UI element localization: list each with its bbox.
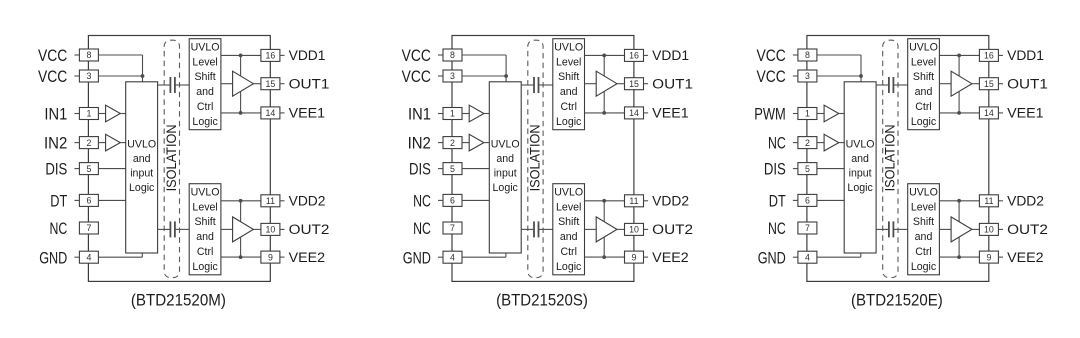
lead tick pin 3	[74, 75, 79, 77]
svg-text:VEE1: VEE1	[289, 106, 326, 121]
svg-text:NC: NC	[768, 219, 786, 238]
wire driver output to pin 15	[253, 83, 261, 85]
svg-text:5: 5	[805, 164, 810, 174]
lead tick pin 3	[793, 75, 798, 77]
pin 11 (VDD2)	[625, 195, 644, 207]
block UVLO Level Shift and Ctrl Logic ch2	[553, 184, 585, 275]
wire VDD tap to driver	[240, 201, 242, 222]
svg-text:Ctrl: Ctrl	[197, 246, 213, 258]
svg-text:Logic: Logic	[129, 182, 155, 194]
lead tick pin 2	[74, 142, 79, 144]
svg-text:1: 1	[805, 109, 810, 119]
pin 14 (VEE1)	[625, 107, 644, 119]
lead tick pin 11	[280, 200, 285, 202]
svg-text:VEE1: VEE1	[652, 106, 689, 121]
junction dot VEE pin 9	[957, 255, 961, 259]
wire driver output to pin 10	[253, 228, 261, 230]
svg-text:Shift: Shift	[194, 71, 215, 83]
svg-text:2: 2	[805, 138, 810, 148]
svg-text:DIS: DIS	[409, 160, 431, 179]
svg-text:VCC: VCC	[402, 67, 431, 86]
svg-text:VEE1: VEE1	[1007, 106, 1044, 121]
svg-text:DT: DT	[769, 192, 786, 211]
wire VEE tap to driver	[240, 91, 242, 113]
wire driver output to pin 10	[617, 228, 625, 230]
svg-text:(BTD21520M): (BTD21520M)	[131, 291, 226, 310]
pin 4 (GND)	[79, 251, 98, 263]
pin 8 (VCC)	[798, 49, 817, 61]
pin 2 (IN2)	[79, 137, 98, 149]
svg-text:VEE2: VEE2	[652, 250, 689, 265]
svg-text:16: 16	[984, 51, 994, 61]
wire GND pin4 to logic block	[98, 256, 142, 258]
svg-text:Level: Level	[911, 56, 936, 68]
pin 10 (OUT2)	[979, 223, 998, 235]
svg-text:5: 5	[86, 164, 91, 174]
wire buffer pin 2 to logic block	[120, 142, 125, 144]
pin 1 (PWM)	[798, 108, 817, 120]
svg-text:16: 16	[629, 51, 639, 61]
svg-text:VDD1: VDD1	[652, 48, 689, 63]
svg-text:Ctrl: Ctrl	[560, 101, 576, 113]
lead tick pin 9	[280, 256, 285, 258]
driver buffer ch pin 15	[951, 71, 972, 96]
svg-text:GND: GND	[758, 248, 786, 267]
lead tick pin 16	[280, 54, 285, 56]
svg-text:8: 8	[805, 50, 810, 60]
svg-text:DIS: DIS	[45, 160, 67, 179]
pin 14 (VEE1)	[979, 107, 998, 119]
wire VEE tap to driver	[603, 91, 605, 113]
pin 3 (VCC)	[798, 70, 817, 82]
wire pin 5 to logic block	[462, 168, 489, 170]
svg-text:ISOLATION: ISOLATION	[164, 124, 179, 191]
svg-text:VEE2: VEE2	[1007, 250, 1044, 265]
svg-text:Logic: Logic	[493, 182, 519, 194]
svg-text:6: 6	[450, 196, 455, 206]
wire VCC pin3 to junction	[817, 75, 861, 77]
pin 16 (VDD1)	[625, 49, 644, 61]
lead tick pin 6	[793, 199, 798, 201]
svg-text:VCC: VCC	[757, 46, 786, 65]
svg-text:and: and	[560, 231, 578, 243]
block UVLO Level Shift and Ctrl Logic ch1	[189, 39, 221, 130]
pin 16 (VDD1)	[261, 49, 280, 61]
lead tick pin 1	[438, 113, 443, 115]
svg-text:Shift: Shift	[913, 216, 934, 228]
capacitor isolation ch1	[876, 84, 889, 86]
lead tick pin 5	[793, 168, 798, 170]
svg-text:and: and	[915, 231, 933, 243]
pin 7 (NC)	[443, 222, 462, 234]
wire VCC junction to logic block	[142, 76, 144, 82]
svg-text:14: 14	[629, 108, 639, 118]
junction dot VDD pin 11	[239, 199, 243, 203]
junction dot VCC net	[141, 74, 145, 78]
svg-text:4: 4	[805, 252, 810, 262]
svg-text:VDD1: VDD1	[289, 48, 326, 63]
pin 6 (DT)	[798, 194, 817, 206]
svg-text:VEE2: VEE2	[289, 250, 326, 265]
svg-text:IN2: IN2	[44, 134, 67, 153]
lead tick pin 14	[998, 112, 1003, 114]
junction dot VDD pin 16	[602, 54, 606, 58]
svg-text:VDD2: VDD2	[652, 194, 689, 209]
svg-text:1: 1	[86, 109, 91, 119]
pin 1 (IN1)	[79, 108, 98, 120]
svg-text:and: and	[196, 86, 214, 98]
wire VCC pin8 to junction	[817, 54, 861, 56]
svg-text:OUT1: OUT1	[289, 77, 330, 92]
wire driver output to pin 15	[617, 83, 625, 85]
block UVLO Level Shift and Ctrl Logic ch2	[189, 184, 221, 275]
svg-text:and: and	[915, 86, 933, 98]
svg-text:Level: Level	[192, 56, 217, 68]
svg-text:GND: GND	[403, 248, 431, 267]
svg-text:UVLO: UVLO	[127, 139, 156, 151]
svg-text:10: 10	[629, 225, 639, 235]
pin 7 (NC)	[798, 222, 817, 234]
lead tick pin 15	[998, 83, 1003, 85]
lead tick pin 15	[280, 83, 285, 85]
wire pin 1 to input buffer	[817, 113, 824, 115]
wire level shift to driver input	[585, 83, 597, 85]
svg-text:IN1: IN1	[44, 105, 67, 124]
svg-text:(BTD21520E): (BTD21520E)	[851, 291, 943, 310]
svg-text:Shift: Shift	[913, 71, 934, 83]
svg-text:Level: Level	[911, 201, 936, 213]
junction dot VCC net	[504, 74, 508, 78]
svg-text:Shift: Shift	[558, 216, 579, 228]
svg-text:2: 2	[86, 138, 91, 148]
wire VDD net ch pin 11	[585, 200, 625, 202]
pin 10 (OUT2)	[261, 223, 280, 235]
svg-text:(BTD21520S): (BTD21520S)	[496, 291, 588, 310]
svg-text:OUT1: OUT1	[652, 77, 693, 92]
isolation barrier (dashed)	[528, 40, 543, 277]
lead tick pin 5	[74, 168, 79, 170]
svg-text:8: 8	[86, 50, 91, 60]
wire buffer pin 2 to logic block	[839, 142, 844, 144]
driver buffer ch pin 10	[233, 217, 254, 242]
wire VEE tap to driver	[240, 237, 242, 257]
pin 2 (IN2)	[443, 137, 462, 149]
svg-text:input: input	[849, 167, 872, 179]
wire VCC pin8 to junction	[98, 54, 142, 56]
svg-text:ISOLATION: ISOLATION	[882, 124, 897, 191]
junction dot VEE pin 14	[957, 111, 961, 115]
wire buffer pin 1 to logic block	[120, 113, 125, 115]
svg-text:Level: Level	[556, 56, 581, 68]
junction dot VEE pin 9	[239, 255, 243, 259]
svg-text:input: input	[494, 167, 517, 179]
lead tick pin 4	[74, 256, 79, 258]
svg-text:and: and	[496, 153, 514, 165]
input buffer pin 2	[469, 134, 484, 151]
svg-text:IN1: IN1	[408, 105, 431, 124]
svg-text:Shift: Shift	[558, 71, 579, 83]
pin 5 (DIS)	[443, 163, 462, 175]
svg-text:14: 14	[266, 108, 276, 118]
wire VEE net ch pin 9	[585, 256, 625, 258]
lead tick pin 11	[998, 200, 1003, 202]
svg-text:11: 11	[984, 196, 993, 206]
lead tick pin 14	[280, 112, 285, 114]
pin 9 (VEE2)	[625, 251, 644, 263]
svg-text:and: and	[560, 86, 578, 98]
wire VDD tap to driver	[958, 201, 960, 222]
svg-text:DT: DT	[50, 192, 67, 211]
svg-text:VDD2: VDD2	[1007, 194, 1044, 209]
svg-text:VCC: VCC	[38, 46, 67, 65]
wire VEE net ch pin 9	[939, 256, 979, 258]
svg-text:and: and	[133, 153, 151, 165]
capacitor isolation ch2	[158, 228, 171, 230]
svg-text:Level: Level	[192, 201, 217, 213]
lead tick pin 16	[644, 54, 649, 56]
svg-text:PWM: PWM	[754, 105, 786, 124]
svg-text:ISOLATION: ISOLATION	[527, 124, 542, 191]
junction dot VEE pin 9	[602, 255, 606, 259]
pin 15 (OUT1)	[979, 78, 998, 90]
lead tick pin 2	[793, 142, 798, 144]
wire pin 2 to input buffer	[462, 142, 469, 144]
svg-text:and: and	[196, 231, 214, 243]
driver buffer ch pin 10	[596, 217, 617, 242]
svg-text:UVLO: UVLO	[191, 186, 220, 198]
svg-text:9: 9	[986, 252, 991, 262]
capacitor isolation ch2	[521, 228, 534, 230]
lead tick pin 11	[644, 200, 649, 202]
wire level shift to driver input	[221, 83, 233, 85]
wire pin 2 to input buffer	[98, 142, 105, 144]
pin 11 (VDD2)	[979, 195, 998, 207]
wire VCC pin3 to junction	[98, 75, 142, 77]
svg-text:10: 10	[984, 225, 994, 235]
wire VDD net ch pin 16	[939, 54, 979, 56]
svg-text:10: 10	[266, 225, 276, 235]
svg-text:8: 8	[450, 50, 455, 60]
pin 14 (VEE1)	[261, 107, 280, 119]
wire VEE tap to driver	[603, 237, 605, 257]
svg-text:Shift: Shift	[194, 216, 215, 228]
lead tick pin 8	[438, 54, 443, 56]
svg-text:OUT1: OUT1	[1007, 77, 1048, 92]
lead tick pin 6	[438, 199, 443, 201]
lead tick pin 8	[74, 54, 79, 56]
wire level shift to driver input	[939, 228, 951, 230]
wire VEE tap to driver	[958, 91, 960, 113]
svg-text:Ctrl: Ctrl	[915, 246, 931, 258]
wire VCC junction to logic block	[505, 76, 507, 82]
svg-text:3: 3	[805, 71, 810, 81]
svg-text:Logic: Logic	[192, 261, 218, 273]
lead tick pin 9	[644, 256, 649, 258]
isolation barrier (dashed)	[164, 40, 179, 277]
svg-text:9: 9	[268, 252, 273, 262]
wire pin 2 to input buffer	[817, 142, 824, 144]
svg-text:6: 6	[805, 196, 810, 206]
svg-text:2: 2	[450, 138, 455, 148]
wire VDD net ch pin 11	[939, 200, 979, 202]
pin 4 (GND)	[798, 251, 817, 263]
wire driver output to pin 10	[972, 228, 980, 230]
svg-text:Logic: Logic	[556, 116, 582, 128]
svg-text:Logic: Logic	[911, 261, 937, 273]
pin 7 (NC)	[79, 222, 98, 234]
wire VEE net ch pin 9	[221, 256, 261, 258]
lead tick pin 10	[998, 228, 1003, 230]
capacitor isolation ch1	[158, 84, 171, 86]
lead tick pin 8	[793, 54, 798, 56]
wire pin 5 to logic block	[98, 168, 125, 170]
wire level shift to driver input	[585, 228, 597, 230]
block UVLO Level Shift and Ctrl Logic ch1	[553, 39, 585, 130]
junction dot VCC net	[859, 74, 863, 78]
svg-text:16: 16	[266, 51, 276, 61]
pin 9 (VEE2)	[261, 251, 280, 263]
svg-text:Logic: Logic	[911, 116, 937, 128]
IC package outline BTD21520S	[452, 36, 634, 282]
driver buffer ch pin 10	[951, 217, 972, 242]
svg-text:NC: NC	[413, 192, 431, 211]
lead tick pin 4	[438, 256, 443, 258]
svg-text:Logic: Logic	[556, 261, 582, 273]
lead tick pin 10	[644, 228, 649, 230]
wire VDD net ch pin 11	[221, 200, 261, 202]
driver buffer ch pin 15	[596, 71, 617, 96]
IC package outline BTD21520M	[88, 36, 270, 282]
pin 16 (VDD1)	[979, 49, 998, 61]
svg-text:OUT2: OUT2	[652, 222, 693, 237]
input buffer pin 1	[824, 105, 839, 122]
input buffer pin 1	[106, 105, 121, 122]
lead tick pin 4	[793, 256, 798, 258]
pin 8 (VCC)	[79, 49, 98, 61]
svg-text:5: 5	[450, 164, 455, 174]
wire GND pin4 to logic block	[462, 256, 506, 258]
wire GND pin4 to logic block	[817, 256, 861, 258]
svg-text:NC: NC	[50, 219, 68, 238]
lead tick pin 16	[998, 54, 1003, 56]
lead tick pin 5	[438, 168, 443, 170]
svg-text:14: 14	[984, 108, 994, 118]
svg-text:VDD1: VDD1	[1007, 48, 1044, 63]
lead tick pin 1	[74, 113, 79, 115]
svg-text:Logic: Logic	[847, 182, 873, 194]
wire pin 5 to logic block	[817, 168, 844, 170]
junction dot VDD pin 16	[239, 54, 243, 58]
pin 2 (NC)	[798, 137, 817, 149]
wire VEE net ch pin 14	[221, 112, 261, 114]
svg-text:and: and	[851, 153, 869, 165]
input buffer pin 2	[824, 134, 839, 151]
junction dot VDD pin 16	[957, 54, 961, 58]
svg-text:4: 4	[86, 252, 91, 262]
svg-text:UVLO: UVLO	[554, 41, 583, 53]
svg-text:UVLO: UVLO	[909, 41, 938, 53]
pin 11 (VDD2)	[261, 195, 280, 207]
wire VCC pin8 to junction	[462, 54, 506, 56]
junction dot VDD pin 11	[957, 199, 961, 203]
wire VDD net ch pin 16	[585, 54, 625, 56]
svg-text:Level: Level	[556, 201, 581, 213]
svg-text:Ctrl: Ctrl	[915, 101, 931, 113]
svg-text:OUT2: OUT2	[289, 222, 330, 237]
block UVLO Level Shift and Ctrl Logic ch2	[908, 184, 940, 275]
svg-text:Ctrl: Ctrl	[560, 246, 576, 258]
wire pin 1 to input buffer	[98, 113, 105, 115]
wire VCC junction to logic block	[860, 76, 862, 82]
svg-text:11: 11	[629, 196, 638, 206]
svg-text:UVLO: UVLO	[191, 41, 220, 53]
junction dot VEE pin 14	[602, 111, 606, 115]
wire buffer pin 1 to logic block	[484, 113, 489, 115]
capacitor isolation ch2	[876, 228, 889, 230]
svg-text:15: 15	[984, 79, 994, 89]
svg-text:4: 4	[450, 252, 455, 262]
capacitor isolation ch1	[521, 84, 534, 86]
svg-text:VDD2: VDD2	[289, 194, 326, 209]
wire driver output to pin 15	[972, 83, 980, 85]
wire VDD tap to driver	[240, 55, 242, 76]
svg-text:GND: GND	[39, 248, 67, 267]
pin 5 (DIS)	[798, 163, 817, 175]
wire VDD tap to driver	[603, 55, 605, 76]
svg-text:VCC: VCC	[757, 67, 786, 86]
svg-text:15: 15	[266, 79, 276, 89]
block UVLO Level Shift and Ctrl Logic ch1	[908, 39, 940, 130]
lead tick pin 3	[438, 75, 443, 77]
lead tick pin 9	[998, 256, 1003, 258]
lead tick pin 6	[74, 199, 79, 201]
svg-text:7: 7	[86, 223, 91, 233]
pin 10 (OUT2)	[625, 223, 644, 235]
svg-text:UVLO: UVLO	[909, 186, 938, 198]
isolation barrier (dashed)	[883, 40, 898, 277]
svg-text:Logic: Logic	[192, 116, 218, 128]
pin 3 (VCC)	[79, 70, 98, 82]
input buffer pin 1	[469, 105, 484, 122]
svg-text:OUT2: OUT2	[1007, 222, 1048, 237]
svg-text:VCC: VCC	[402, 46, 431, 65]
svg-text:3: 3	[86, 71, 91, 81]
wire buffer pin 2 to logic block	[484, 142, 489, 144]
svg-text:UVLO: UVLO	[554, 186, 583, 198]
svg-text:3: 3	[450, 71, 455, 81]
block UVLO and input Logic	[844, 82, 876, 253]
wire VEE net ch pin 14	[585, 112, 625, 114]
pin 15 (OUT1)	[261, 78, 280, 90]
IC package outline BTD21520E	[807, 36, 989, 282]
svg-text:NC: NC	[413, 219, 431, 238]
junction dot VDD pin 11	[602, 199, 606, 203]
pin 9 (VEE2)	[979, 251, 998, 263]
wire VCC pin3 to junction	[462, 75, 506, 77]
svg-text:1: 1	[450, 109, 455, 119]
block UVLO and input Logic	[126, 82, 158, 253]
pin 4 (GND)	[443, 251, 462, 263]
driver buffer ch pin 15	[233, 71, 254, 96]
svg-text:UVLO: UVLO	[846, 139, 875, 151]
lead tick pin 14	[644, 112, 649, 114]
wire level shift to driver input	[939, 83, 951, 85]
wire VEE net ch pin 14	[939, 112, 979, 114]
input buffer pin 2	[106, 134, 121, 151]
svg-text:Ctrl: Ctrl	[197, 101, 213, 113]
pin 1 (IN1)	[443, 108, 462, 120]
lead tick pin 2	[438, 142, 443, 144]
